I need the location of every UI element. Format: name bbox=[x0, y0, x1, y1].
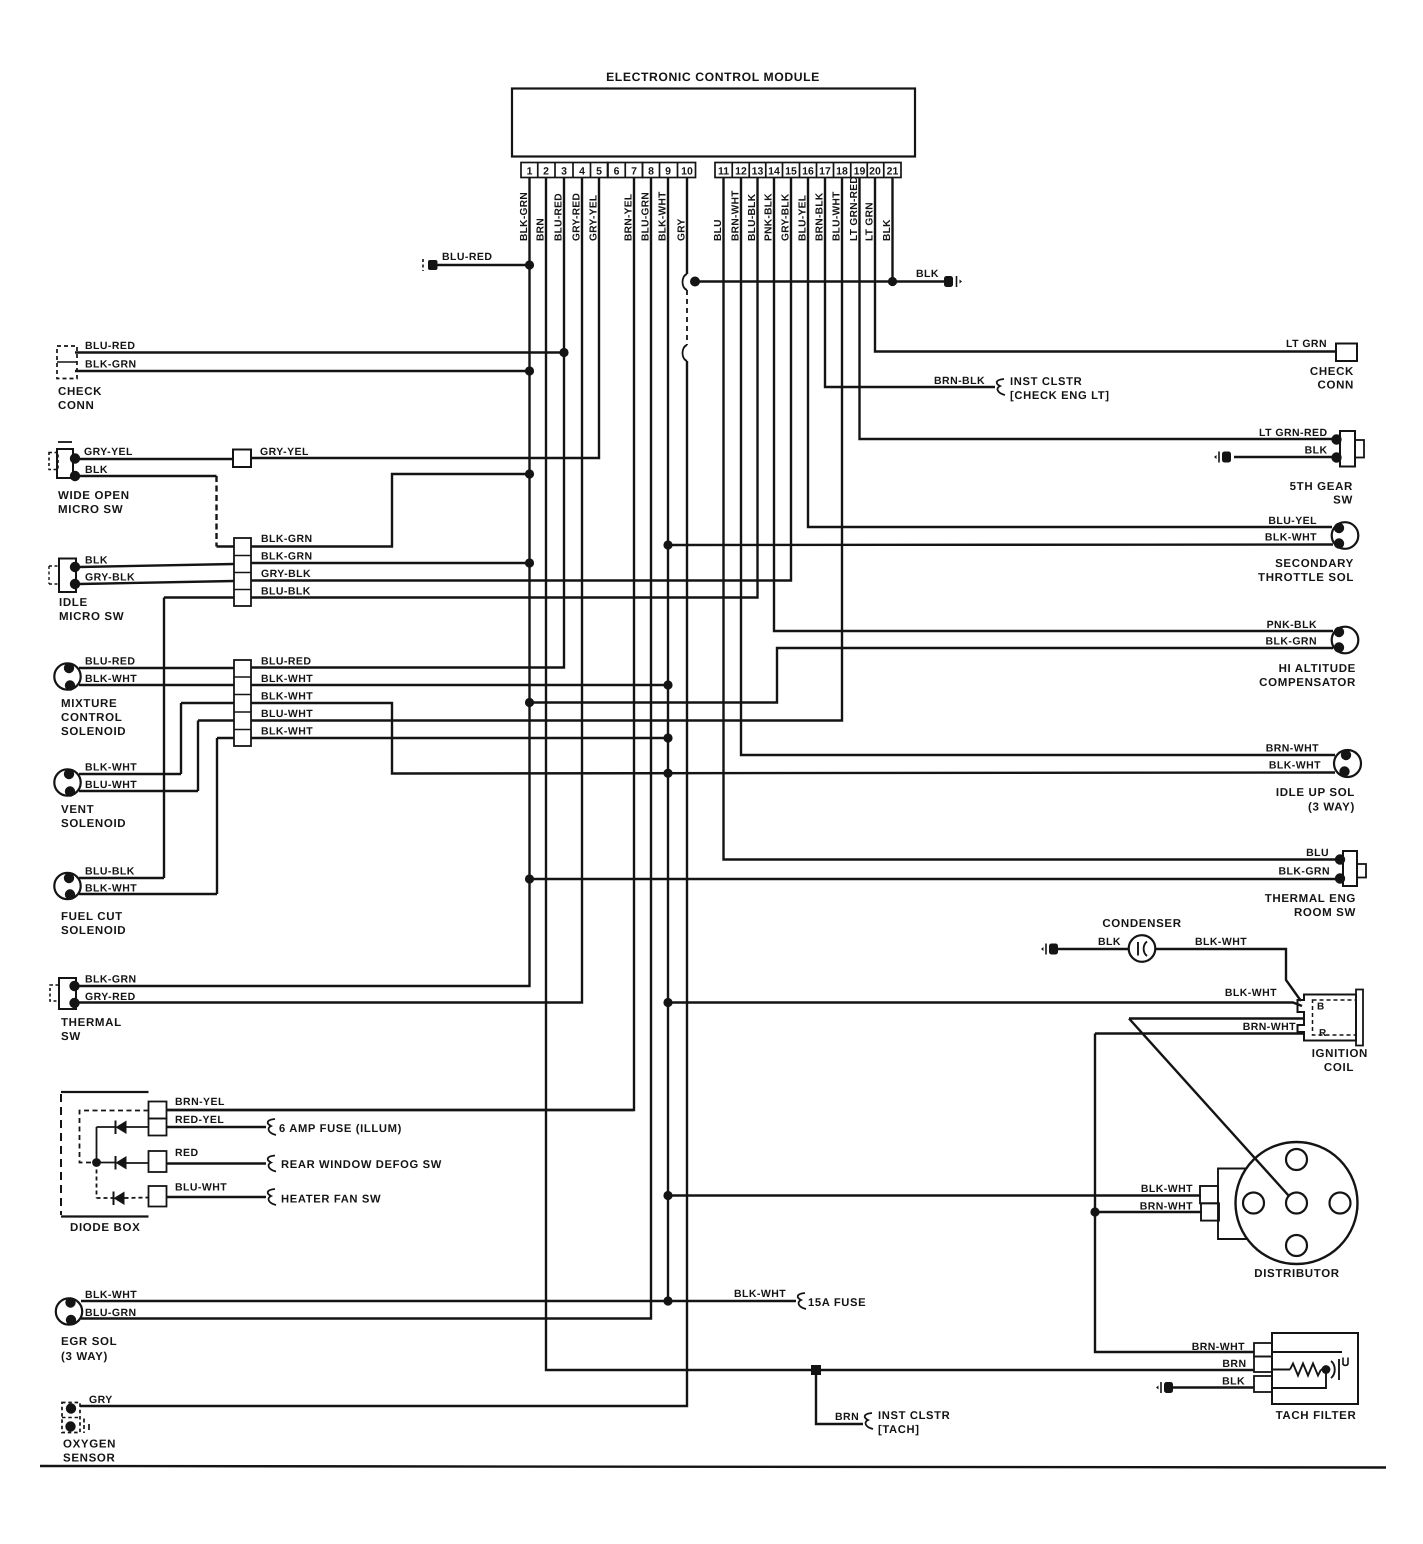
wire pin15 GRY-BLK to block row3 bbox=[251, 178, 791, 581]
wire pin13 BLU-BLK to block row4 bbox=[251, 178, 758, 598]
tach cell BLK bbox=[1254, 1376, 1272, 1392]
wire D3 cathode dashed bbox=[97, 1197, 114, 1199]
svg-text:BLK-GRN: BLK-GRN bbox=[85, 359, 137, 371]
wire pin16 BLU-YEL to SECONDARY THROTTLE SOL bbox=[808, 178, 1332, 528]
junction diode bus bbox=[92, 1158, 101, 1167]
wire WIDE OPEN BLK into block row1 bbox=[217, 545, 235, 547]
svg-text:BLU-RED: BLU-RED bbox=[85, 656, 135, 668]
terminal blob oxygen case bbox=[65, 1421, 75, 1431]
svg-text:13: 13 bbox=[752, 166, 764, 178]
wire pin10 GRY vertical upper bbox=[686, 178, 688, 275]
diode box bottom edge bbox=[61, 1215, 149, 1217]
wire pin9 BLK-WHT to SECONDARY THROTTLE SOL bbox=[668, 543, 1333, 546]
svg-text:6: 6 bbox=[614, 166, 620, 178]
svg-text:SOLENOID: SOLENOID bbox=[61, 818, 126, 830]
wire ignition coil R BRN-WHT bbox=[1095, 1032, 1304, 1034]
junction pin9/row2 BLK-WHT bbox=[663, 680, 672, 689]
wire diode box BLU-WHT to heater fan sw bbox=[167, 1196, 267, 1198]
svg-text:[CHECK ENG LT]: [CHECK ENG LT] bbox=[1010, 390, 1110, 402]
terminal blob sec-throttle bottom bbox=[1334, 538, 1344, 548]
wire pin20 LT GRN to CHECK CONN (right) bbox=[875, 178, 1336, 352]
wire tach junction to BLK row bbox=[1272, 1370, 1326, 1389]
connector CHECK CONN (right) bbox=[1336, 344, 1357, 362]
svg-text:CONTROL: CONTROL bbox=[61, 712, 122, 724]
svg-text:BRN: BRN bbox=[835, 1411, 859, 1423]
wire diode box RED to defog sw bbox=[167, 1162, 267, 1164]
wire distributor BRN-WHT bbox=[1095, 1211, 1202, 1213]
distributor bbox=[1236, 1142, 1358, 1264]
wire pin21 BLK vertical bbox=[891, 178, 893, 282]
svg-text:2: 2 bbox=[543, 166, 549, 178]
solenoid VENT bbox=[54, 769, 80, 795]
svg-text:21: 21 bbox=[887, 166, 899, 178]
wire pin9 BLK-WHT to DISTRIBUTOR bbox=[668, 1194, 1201, 1196]
wire MIXTURE SOL BLU-RED to block bbox=[79, 667, 234, 669]
svg-text:(3 WAY): (3 WAY) bbox=[1308, 802, 1355, 814]
svg-text:HI ALTITUDE: HI ALTITUDE bbox=[1279, 663, 1356, 675]
wire IDLE SW BLK to block row2 bbox=[79, 564, 234, 567]
wire block row1 BLK-GRN to pin1 bbox=[251, 474, 530, 547]
svg-text:BLK-WHT: BLK-WHT bbox=[1195, 936, 1247, 948]
svg-text:GRY-YEL: GRY-YEL bbox=[260, 446, 309, 458]
wire D2 anode bbox=[127, 1162, 149, 1164]
wire CHECK CONN BLK-GRN to pin1 bbox=[75, 370, 530, 372]
wire BLU-RED stub to pin1 bbox=[437, 264, 530, 266]
svg-text:11: 11 bbox=[718, 166, 729, 178]
terminal blob wide-open GRY-YEL bbox=[70, 453, 80, 463]
idle sw dashed tail 3 bbox=[49, 583, 59, 585]
wire diode common bus upper bbox=[96, 1127, 98, 1163]
svg-text:SENSOR: SENSOR bbox=[63, 1453, 116, 1465]
sensor OXYGEN bbox=[62, 1403, 80, 1433]
diode D1 bbox=[116, 1121, 127, 1135]
svg-text:INST CLSTR: INST CLSTR bbox=[878, 1410, 950, 1422]
ignition coil rear cap bbox=[1356, 990, 1363, 1046]
distributor connector cell BLK-WHT bbox=[1200, 1186, 1218, 1203]
svg-text:BLK-WHT: BLK-WHT bbox=[734, 1288, 786, 1300]
wire pin1 BLK-GRN to HI ALTITUDE COMPENSATOR bbox=[530, 648, 1334, 703]
svg-text:THERMAL: THERMAL bbox=[61, 1017, 122, 1029]
terminal blob 5th gear BLK bbox=[1331, 452, 1341, 462]
wire pin5 GRY-YEL vertical to inline connector bbox=[251, 178, 599, 459]
svg-text:ROOM SW: ROOM SW bbox=[1294, 907, 1356, 919]
svg-text:IDLE: IDLE bbox=[59, 597, 88, 609]
svg-text:IGNITION: IGNITION bbox=[1312, 1048, 1368, 1060]
svg-text:4: 4 bbox=[579, 166, 585, 178]
wire VENT SOL BLK-WHT riser bbox=[180, 703, 182, 774]
break symbol 6 AMP FUSE bbox=[268, 1119, 276, 1135]
wire diode box RED-YEL to 6A fuse bbox=[167, 1126, 267, 1128]
terminal blob vent top bbox=[64, 769, 74, 779]
wire pin10 GRY dashed part bbox=[686, 290, 688, 345]
svg-text:BLK-WHT: BLK-WHT bbox=[261, 726, 313, 738]
wire CHECK CONN BLU-RED to pin3 bbox=[75, 351, 564, 353]
svg-text:10: 10 bbox=[681, 166, 693, 178]
connector CHECK CONN (left) bbox=[57, 346, 77, 379]
svg-text:19: 19 bbox=[854, 166, 866, 178]
switch IDLE MICRO SW bbox=[59, 559, 76, 593]
svg-text:GRY-RED: GRY-RED bbox=[85, 991, 136, 1003]
svg-text:[TACH]: [TACH] bbox=[878, 1424, 920, 1436]
junction pin9/distributor BLK-WHT bbox=[663, 1191, 672, 1200]
wire pin12 BRN-WHT to IDLE UP SOL bbox=[741, 178, 1335, 756]
wire diode box BRN-YEL (to pin7) bbox=[167, 1109, 635, 1111]
svg-text:BLK-WHT: BLK-WHT bbox=[1265, 532, 1317, 544]
svg-text:15A FUSE: 15A FUSE bbox=[808, 1297, 866, 1309]
svg-text:BLK-WHT: BLK-WHT bbox=[85, 883, 137, 895]
distributor housing bracket bbox=[1218, 1169, 1247, 1240]
svg-text:BLK-WHT: BLK-WHT bbox=[85, 673, 137, 685]
ground (condenser BLK) bbox=[1041, 944, 1058, 955]
svg-text:BLK-WHT: BLK-WHT bbox=[1141, 1183, 1193, 1195]
wire pin1 BLK-GRN vertical + to THERMAL SW bbox=[76, 178, 530, 987]
wire block row4 left stub (mixture) bbox=[198, 719, 234, 721]
svg-text:15: 15 bbox=[785, 166, 797, 178]
wire block row4 left stub bbox=[164, 596, 234, 598]
wire pin10 GRY vertical to OXYGEN SENSOR bbox=[80, 361, 687, 1406]
junction pin9/idle-up BLK-WHT bbox=[663, 769, 672, 778]
wire diagonal to distributor rotor bbox=[1129, 1019, 1289, 1196]
svg-text:BLK-WHT: BLK-WHT bbox=[1225, 987, 1277, 999]
svg-text:LT GRN-RED: LT GRN-RED bbox=[1259, 427, 1327, 439]
connector block idle (4 cells) bbox=[234, 538, 251, 606]
svg-text:BLK-WHT: BLK-WHT bbox=[261, 673, 313, 685]
diode D3 bbox=[114, 1192, 125, 1206]
svg-text:(3 WAY): (3 WAY) bbox=[61, 1351, 108, 1363]
svg-text:16: 16 bbox=[802, 166, 814, 178]
wire FUEL CUT SOL BLK-WHT bbox=[79, 893, 217, 895]
break symbol INST CLSTR TACH bbox=[865, 1413, 873, 1429]
terminal blob EGR top bbox=[65, 1297, 75, 1307]
svg-text:PNK-BLK: PNK-BLK bbox=[1267, 619, 1317, 631]
diode box connector cells bbox=[149, 1102, 167, 1119]
terminal blob sec-throttle top bbox=[1334, 523, 1344, 533]
svg-text:ELECTRONIC CONTROL MODULE: ELECTRONIC CONTROL MODULE bbox=[606, 70, 820, 84]
wire pin18 BLU-WHT to block row4 (mixture) bbox=[251, 178, 842, 721]
solenoid MIXTURE CONTROL bbox=[54, 663, 80, 689]
ground (5th gear BLK) bbox=[1214, 452, 1231, 463]
terminal blob vent bottom bbox=[65, 786, 75, 796]
wire EGR SOL BLK-WHT / 15A FUSE bbox=[81, 1300, 796, 1302]
terminal blob idle GRY-BLK bbox=[70, 579, 80, 589]
svg-text:5: 5 bbox=[596, 166, 602, 178]
svg-text:7: 7 bbox=[631, 166, 637, 178]
svg-text:SECONDARY: SECONDARY bbox=[1275, 558, 1354, 570]
tach filter box bbox=[1272, 1333, 1358, 1404]
switch THERMAL ENG ROOM SW bbox=[1343, 851, 1357, 886]
svg-text:12: 12 bbox=[735, 166, 747, 178]
svg-text:LT GRN: LT GRN bbox=[1286, 338, 1327, 350]
svg-text:GRY: GRY bbox=[89, 1394, 113, 1406]
svg-text:9: 9 bbox=[665, 166, 671, 178]
junction pin9/EGR BLK-WHT bbox=[663, 1296, 672, 1305]
solenoid HI ALTITUDE COMPENSATOR bbox=[1332, 627, 1359, 654]
svg-text:BRN-WHT: BRN-WHT bbox=[1140, 1201, 1193, 1213]
terminal blob thermal-eng BLU bbox=[1335, 854, 1345, 864]
wire condenser BLK bbox=[1058, 948, 1129, 950]
svg-text:BLU-YEL: BLU-YEL bbox=[1268, 515, 1317, 527]
svg-text:17: 17 bbox=[819, 166, 831, 178]
wire pin9 BLK-WHT vertical bbox=[667, 178, 669, 1302]
connector stub BLU-RED bbox=[422, 259, 424, 271]
oxygen bolt mark 1 bbox=[83, 1419, 85, 1434]
svg-text:BLU-WHT: BLU-WHT bbox=[175, 1182, 227, 1194]
wire D1 anode bbox=[127, 1126, 149, 1128]
svg-text:18: 18 bbox=[836, 166, 848, 178]
svg-text:BLK: BLK bbox=[85, 464, 108, 476]
wire VENT SOL BLU-WHT riser bbox=[197, 721, 199, 792]
svg-text:1: 1 bbox=[527, 166, 533, 178]
terminal blob hi-alt bottom bbox=[1334, 642, 1344, 652]
svg-text:THROTTLE SOL: THROTTLE SOL bbox=[1258, 572, 1354, 584]
wire MIXTURE SOL BLK-WHT to block row2 bbox=[79, 684, 234, 686]
diode D2 bbox=[116, 1156, 127, 1170]
stub terminal blob bbox=[428, 260, 438, 270]
wire D1 cathode bbox=[97, 1126, 116, 1128]
svg-text:FUEL CUT: FUEL CUT bbox=[61, 911, 123, 923]
svg-text:BLK-GRN: BLK-GRN bbox=[1278, 866, 1330, 878]
wire pin4 GRY-RED vertical to THERMAL SW bbox=[76, 178, 582, 1003]
wire pin17 BRN-BLK to INST CLSTR CHECK ENG LT bbox=[825, 178, 995, 388]
svg-text:COMPENSATOR: COMPENSATOR bbox=[1259, 677, 1356, 689]
svg-text:R: R bbox=[1319, 1028, 1327, 1039]
junction pin1/check-conn BLK-GRN bbox=[525, 366, 534, 375]
svg-text:BLK-WHT: BLK-WHT bbox=[261, 691, 313, 703]
svg-text:MIXTURE: MIXTURE bbox=[61, 698, 117, 710]
junction pin21/BLK bbox=[888, 277, 897, 286]
svg-text:RED-YEL: RED-YEL bbox=[175, 1114, 224, 1126]
svg-text:BRN: BRN bbox=[1222, 1358, 1246, 1370]
svg-text:GRY-YEL: GRY-YEL bbox=[84, 446, 133, 458]
break symbol HEATER FAN SW bbox=[268, 1189, 276, 1205]
wire condenser BLK-WHT to IGNITION COIL bbox=[1156, 949, 1302, 1001]
junction pin9/row5 BLK-WHT bbox=[663, 733, 672, 742]
capacitor C2 (tach filter) bbox=[1331, 1361, 1335, 1378]
svg-text:CONDENSER: CONDENSER bbox=[1102, 918, 1181, 930]
wire VENT SOL BLU-WHT bbox=[79, 790, 198, 792]
svg-text:BLK: BLK bbox=[85, 555, 108, 567]
electronic control module U1 box bbox=[512, 89, 915, 157]
svg-text:DIODE BOX: DIODE BOX bbox=[70, 1222, 140, 1234]
svg-text:BLK-WHT: BLK-WHT bbox=[85, 762, 137, 774]
svg-text:20: 20 bbox=[869, 166, 881, 178]
terminal blob oxygen GRY bbox=[66, 1403, 76, 1413]
svg-text:14: 14 bbox=[768, 166, 780, 178]
svg-text:BLU-RED: BLU-RED bbox=[85, 340, 135, 352]
wire FUEL CUT SOL BLU-BLK riser bbox=[163, 598, 165, 879]
svg-text:BRN-WHT: BRN-WHT bbox=[1192, 1341, 1245, 1353]
solenoid SECONDARY THROTTLE bbox=[1332, 522, 1359, 549]
svg-text:SOLENOID: SOLENOID bbox=[61, 726, 126, 738]
svg-text:THERMAL ENG: THERMAL ENG bbox=[1265, 893, 1356, 905]
resistor R1 (tach filter) bbox=[1290, 1364, 1321, 1376]
wire BRN-WHT riser to TACH FILTER bbox=[1095, 1034, 1254, 1353]
terminal blob idle-up top bbox=[1341, 750, 1351, 760]
oxygen bolt mark 2 bbox=[88, 1424, 90, 1430]
svg-text:TACH FILTER: TACH FILTER bbox=[1276, 1410, 1357, 1422]
svg-text:REAR WINDOW DEFOG SW: REAR WINDOW DEFOG SW bbox=[281, 1159, 442, 1171]
terminal blob thermal BLK-GRN bbox=[69, 981, 79, 991]
svg-text:BLK-GRN: BLK-GRN bbox=[261, 533, 313, 545]
terminal blob mixture top bbox=[64, 663, 74, 673]
svg-text:DISTRIBUTOR: DISTRIBUTOR bbox=[1254, 1268, 1340, 1280]
svg-text:EGR SOL: EGR SOL bbox=[61, 1336, 117, 1348]
wire diode box common dashed L bbox=[80, 1111, 149, 1163]
junction BRN-WHT riser/distributor bbox=[1090, 1207, 1099, 1216]
svg-text:COIL: COIL bbox=[1324, 1062, 1354, 1074]
wire IDLE SW GRY-BLK to block bbox=[79, 581, 234, 584]
junction pin1/hi-alt BLK-GRN bbox=[525, 698, 534, 707]
svg-text:BLU-RED: BLU-RED bbox=[442, 251, 492, 263]
svg-text:SOLENOID: SOLENOID bbox=[61, 925, 126, 937]
distributor connector cell BRN-WHT bbox=[1201, 1203, 1219, 1220]
svg-text:5TH GEAR: 5TH GEAR bbox=[1290, 481, 1353, 493]
solenoid EGR (3 WAY) bbox=[56, 1298, 82, 1324]
junction pin3/check-conn BLU-RED bbox=[559, 348, 568, 357]
svg-text:CHECK: CHECK bbox=[58, 386, 102, 398]
wire FUEL CUT SOL BLU-BLK bbox=[79, 877, 164, 879]
svg-text:BRN-BLK: BRN-BLK bbox=[934, 375, 985, 387]
terminal blob BLK wire start bbox=[690, 277, 700, 287]
check conn divider bbox=[57, 361, 77, 363]
switch THERMAL SW bbox=[59, 978, 76, 1009]
svg-text:BLK: BLK bbox=[1222, 1376, 1245, 1388]
inline connector GRY-YEL bbox=[233, 450, 251, 468]
svg-text:MICRO SW: MICRO SW bbox=[59, 611, 124, 623]
solenoid FUEL CUT bbox=[54, 873, 80, 899]
wire pin14 PNK-BLK to HI ALTITUDE COMPENSATOR bbox=[774, 178, 1333, 632]
svg-text:BLU-BLK: BLU-BLK bbox=[261, 586, 311, 598]
svg-text:BLK: BLK bbox=[1098, 936, 1121, 948]
svg-text:3: 3 bbox=[561, 166, 567, 178]
svg-text:BLK: BLK bbox=[1305, 445, 1328, 457]
solenoid IDLE UP (3 WAY) bbox=[1334, 750, 1361, 777]
oxygen divider bbox=[62, 1417, 80, 1419]
junction pin1/BLU-RED stub bbox=[525, 260, 534, 269]
break symbol INST CLSTR CHECK ENG LT bbox=[997, 379, 1005, 395]
svg-text:IDLE UP SOL: IDLE UP SOL bbox=[1276, 787, 1355, 799]
wire D3 anode dashed bbox=[125, 1197, 149, 1200]
wire BLK to ground (top right) bbox=[695, 280, 947, 282]
wire WIDE OPEN SW BLK bbox=[79, 475, 217, 477]
wire tach BRN inner lead bbox=[1272, 1369, 1290, 1371]
ECM pin boxes 1-21 bbox=[521, 163, 608, 178]
svg-text:WIDE OPEN: WIDE OPEN bbox=[58, 490, 130, 502]
connector IGNITION COIL bbox=[1298, 995, 1357, 1041]
terminal blob 5th gear LT GRN-RED bbox=[1331, 434, 1341, 444]
svg-text:OXYGEN: OXYGEN bbox=[63, 1439, 116, 1451]
separator line bottom bbox=[40, 1466, 1386, 1468]
svg-text:BRN-WHT: BRN-WHT bbox=[1243, 1021, 1296, 1033]
ground (BLK top right) bbox=[944, 276, 962, 287]
wire block row3 left stub bbox=[181, 702, 234, 704]
wire WIDE OPEN SW GRY-YEL to inline connector bbox=[79, 458, 233, 460]
svg-text:BLU-BLK: BLU-BLK bbox=[85, 866, 135, 878]
wire resistor to junction bbox=[1321, 1369, 1326, 1371]
svg-text:BLK-GRN: BLK-GRN bbox=[261, 551, 313, 563]
switch WIDE OPEN MICRO SW bbox=[57, 449, 73, 478]
terminal blob EGR bottom bbox=[66, 1315, 76, 1325]
wire 5TH GEAR SW BLK to ground bbox=[1234, 456, 1334, 458]
wide-open top notch bbox=[58, 441, 72, 443]
wire tach BLK to ground bbox=[1173, 1386, 1254, 1388]
wire pin10 GRY jump-over arc 1 bbox=[683, 274, 688, 290]
svg-text:VENT: VENT bbox=[61, 804, 94, 816]
wire pin3 BLU-RED vertical to block row1 (mixture) bbox=[251, 178, 564, 668]
svg-text:BRN-WHT: BRN-WHT bbox=[1266, 743, 1319, 755]
svg-text:GRY-BLK: GRY-BLK bbox=[85, 572, 135, 584]
terminal blob idle-up bottom bbox=[1339, 766, 1349, 776]
svg-text:BLU-RED: BLU-RED bbox=[261, 656, 311, 668]
wire pin7 BRN-YEL vertical to DIODE BOX bbox=[167, 178, 634, 1111]
wire pin2 BRN vertical + to TACH FILTER bbox=[546, 178, 1254, 1371]
wire pin8 BLU-GRN vertical to EGR SOL bbox=[81, 178, 651, 1319]
diode box outline bbox=[60, 1094, 62, 1215]
wire tach BRN-WHT inner bbox=[1272, 1351, 1342, 1353]
wire VENT SOL BLK-WHT bbox=[79, 773, 181, 775]
terminal blob thermal GRY-RED bbox=[69, 998, 79, 1008]
junction tach R-C bbox=[1322, 1365, 1331, 1374]
wire pin11 BLU to THERMAL ENG ROOM SW bbox=[724, 178, 1342, 860]
switch 5TH GEAR SW bbox=[1340, 431, 1355, 467]
svg-text:8: 8 bbox=[648, 166, 654, 178]
break symbol REAR WINDOW DEFOG SW bbox=[268, 1156, 276, 1172]
svg-text:BLK-WHT: BLK-WHT bbox=[85, 1289, 137, 1301]
break symbol 15A FUSE bbox=[798, 1293, 806, 1309]
svg-text:BRN-YEL: BRN-YEL bbox=[175, 1096, 225, 1108]
junction pin9/ignition-coil BLK-WHT bbox=[663, 998, 672, 1007]
svg-text:SW: SW bbox=[61, 1031, 81, 1043]
idle sw dashed tail 1 bbox=[49, 565, 59, 567]
terminal blob hi-alt top bbox=[1334, 627, 1344, 637]
terminal blob fuel-cut top bbox=[64, 873, 74, 883]
connector block mixture (5 cells) bbox=[234, 660, 251, 746]
terminal blob mixture bottom bbox=[65, 680, 75, 690]
wire FUEL CUT SOL BLK-WHT riser bbox=[216, 738, 218, 894]
junction pin1/row1 BLK-GRN bbox=[525, 469, 534, 478]
svg-text:BLK: BLK bbox=[916, 268, 939, 280]
svg-text:CHECK: CHECK bbox=[1310, 366, 1354, 378]
svg-text:B: B bbox=[1317, 1002, 1325, 1013]
junction square BRN tap to INST CLSTR TACH bbox=[811, 1365, 821, 1375]
svg-text:GRY-BLK: GRY-BLK bbox=[261, 568, 311, 580]
wire BRN drop to INST CLSTR (TACH) bbox=[816, 1370, 863, 1424]
condenser C1 bbox=[1129, 935, 1156, 962]
svg-text:CONN: CONN bbox=[1318, 380, 1354, 392]
svg-text:INST CLSTR: INST CLSTR bbox=[1010, 376, 1082, 388]
svg-text:MICRO SW: MICRO SW bbox=[58, 504, 123, 516]
terminal blob wide-open BLK bbox=[70, 471, 80, 481]
tach cell BRN-WHT bbox=[1254, 1343, 1272, 1357]
svg-text:SW: SW bbox=[1333, 495, 1353, 507]
wire pin19 LT GRN-RED to 5TH GEAR SW bbox=[860, 178, 1335, 440]
svg-text:BLU-WHT: BLU-WHT bbox=[85, 779, 137, 791]
terminal blob fuel-cut bottom bbox=[65, 889, 75, 899]
wire pin9 BLK-WHT to IGNITION COIL B bbox=[668, 1003, 1302, 1007]
svg-text:BLK-GRN: BLK-GRN bbox=[1265, 636, 1317, 648]
ground (tach BLK) bbox=[1156, 1382, 1173, 1393]
wire D2 cathode bbox=[97, 1162, 116, 1164]
ignition coil dashed inner bbox=[1313, 1000, 1357, 1035]
wire diode common bus lower (dashed) bbox=[96, 1163, 98, 1199]
svg-text:HEATER FAN SW: HEATER FAN SW bbox=[281, 1194, 381, 1206]
junction pin1/row2 BLK-GRN bbox=[525, 558, 534, 567]
wire pin1 BLK-GRN to THERMAL ENG ROOM SW bbox=[530, 878, 1342, 880]
wire block row5 left stub bbox=[217, 737, 234, 739]
svg-text:BLU-WHT: BLU-WHT bbox=[261, 708, 313, 720]
wire block row2 BLK-WHT to pin9 bbox=[251, 684, 668, 686]
terminal blob idle BLK bbox=[70, 562, 80, 572]
